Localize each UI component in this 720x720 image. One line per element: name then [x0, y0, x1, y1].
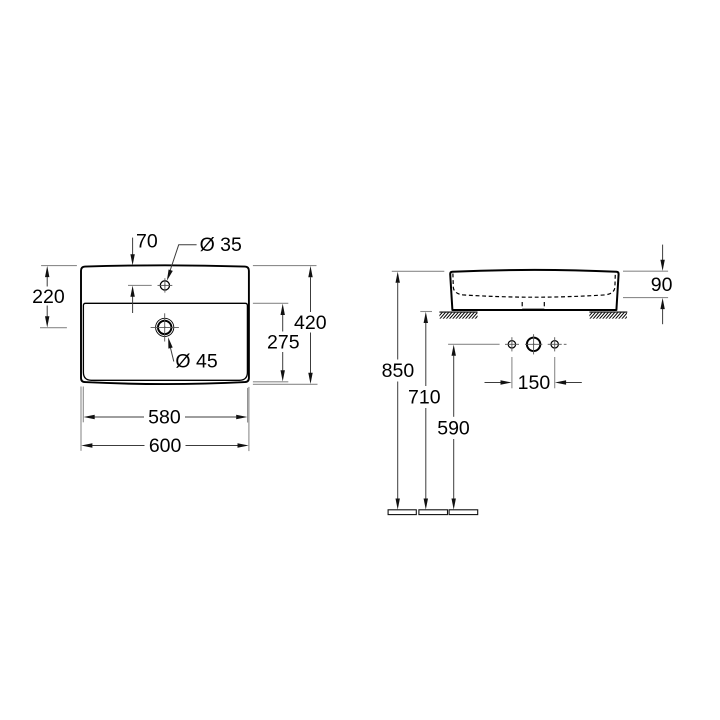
dimension 590 (floor to holes): [437, 345, 470, 510]
svg-text:600: 600: [149, 435, 182, 457]
extension line 710 (countertop level): [420, 311, 432, 313]
countertop line right + hatch: [586, 312, 631, 320]
label Ø35 with leader: [167, 234, 242, 281]
svg-text:Ø 45: Ø 45: [175, 351, 217, 373]
drain hole crosshair: [151, 313, 179, 341]
tap hole crosshair: [158, 278, 173, 292]
dimension 420 (right outer): [253, 266, 327, 385]
dimension 150 (hole spacing): [485, 357, 582, 394]
dimension 580 (bottom inner width): [83, 387, 247, 429]
svg-text:850: 850: [382, 360, 415, 382]
extension line 850 (basin top, front view): [392, 270, 445, 272]
mounting hole right small (front view): [551, 337, 558, 351]
label Ø45 with leader: [168, 337, 218, 373]
svg-text:90: 90: [651, 274, 673, 296]
svg-text:275: 275: [267, 332, 300, 354]
dimension 600 (bottom outer width): [81, 387, 249, 458]
dimension 90 (basin height, right): [623, 245, 673, 325]
holes horizontal centerline: [505, 343, 567, 345]
mounting hole center large (front view): [527, 334, 540, 354]
svg-text:710: 710: [408, 387, 441, 409]
countertop line left + hatch: [436, 312, 481, 320]
svg-text:Ø 35: Ø 35: [200, 234, 242, 256]
dimension 850 (floor to rim): [382, 272, 415, 510]
dimension 70 (tap hole offset): [128, 231, 158, 313]
basin body outline (front view): [450, 270, 618, 310]
basin inner bowl outline with ledge (top view): [83, 303, 247, 380]
floor reference marks: [388, 510, 478, 515]
basin outer outline (top view): [81, 265, 249, 384]
inner bowl profile dashed (front view): [453, 274, 615, 298]
svg-text:150: 150: [518, 372, 551, 394]
svg-text:590: 590: [437, 417, 470, 439]
svg-text:580: 580: [148, 406, 181, 428]
tap hole circle (top view): [160, 281, 169, 290]
dimension 275 (right inner): [253, 303, 300, 382]
extension line 590 (holes centerline): [448, 343, 500, 345]
drain hole outer circle: [156, 318, 174, 336]
drain recess ticks (front view): [522, 302, 544, 309]
svg-text:70: 70: [136, 231, 158, 253]
dimension 710 (floor to countertop): [408, 312, 441, 510]
drain hole inner circle (top view): [158, 321, 171, 334]
svg-text:220: 220: [32, 286, 65, 308]
dimension 220 (left): [32, 266, 77, 328]
mounting hole left small (front view): [508, 337, 515, 351]
